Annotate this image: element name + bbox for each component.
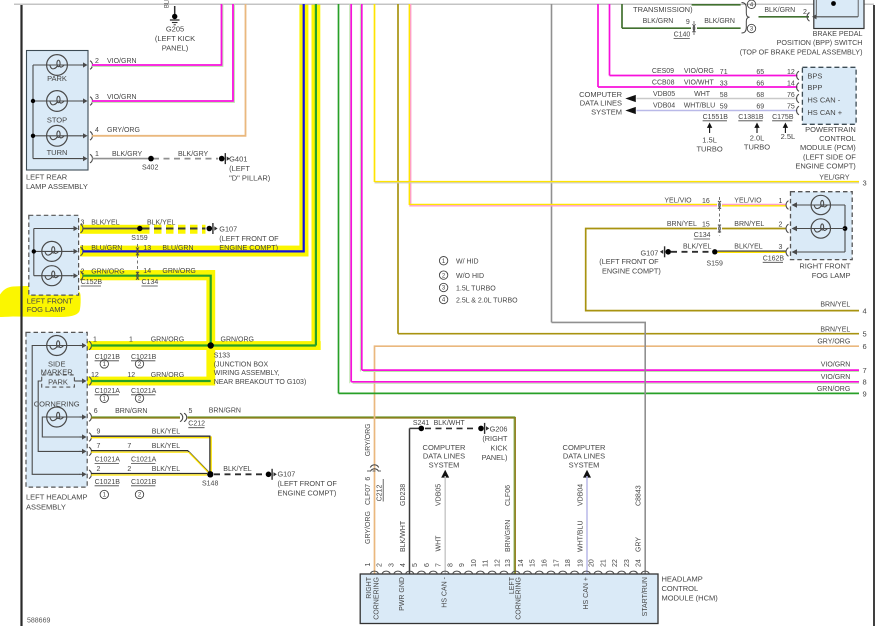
svg-text:16: 16 — [542, 559, 549, 567]
svg-text:LEFT REAR: LEFT REAR — [26, 173, 68, 182]
svg-text:CCB08: CCB08 — [652, 80, 675, 87]
svg-text:6: 6 — [94, 408, 98, 415]
svg-text:(LEFT SIDE OF: (LEFT SIDE OF — [803, 152, 856, 161]
svg-text:PANEL): PANEL) — [482, 453, 508, 462]
svg-text:7: 7 — [436, 563, 443, 567]
svg-text:BLK/YEL: BLK/YEL — [152, 466, 181, 473]
svg-text:1: 1 — [779, 198, 783, 205]
svg-text:10: 10 — [471, 559, 478, 567]
svg-text:BRAKE PEDAL: BRAKE PEDAL — [813, 29, 863, 38]
svg-text:8: 8 — [447, 563, 454, 567]
svg-text:START/RUN: START/RUN — [642, 577, 649, 616]
svg-text:C152B: C152B — [81, 279, 103, 286]
svg-text:GRY/ORG: GRY/ORG — [107, 127, 140, 134]
svg-text:17: 17 — [553, 559, 560, 567]
svg-text:TURN: TURN — [47, 148, 68, 157]
svg-text:24: 24 — [636, 559, 643, 567]
svg-text:2: 2 — [779, 221, 783, 228]
svg-text:C1021B: C1021B — [131, 479, 157, 486]
svg-text:COMPUTER: COMPUTER — [423, 443, 467, 452]
svg-text:"D" PILLAR): "D" PILLAR) — [229, 173, 271, 182]
svg-text:C134: C134 — [142, 279, 159, 286]
svg-text:66: 66 — [756, 80, 764, 87]
svg-text:GRY: GRY — [636, 537, 643, 552]
svg-text:15: 15 — [702, 221, 710, 228]
svg-text:BLK/GRY: BLK/GRY — [112, 151, 143, 158]
svg-text:(LEFT FRONT OF: (LEFT FRONT OF — [599, 257, 659, 266]
svg-text:2: 2 — [127, 466, 131, 473]
svg-text:6: 6 — [424, 563, 431, 567]
svg-text:(LEFT: (LEFT — [229, 164, 250, 173]
svg-text:4: 4 — [95, 127, 99, 134]
svg-text:GRN/ORG: GRN/ORG — [151, 372, 184, 379]
svg-text:FOG LAMP: FOG LAMP — [27, 305, 66, 314]
svg-text:HS CAN +: HS CAN + — [807, 108, 842, 117]
svg-text:W/ HID: W/ HID — [456, 259, 479, 266]
svg-text:G107: G107 — [641, 248, 659, 257]
svg-text:G205: G205 — [166, 25, 184, 34]
svg-text:RIGHT: RIGHT — [366, 576, 373, 599]
svg-text:S241: S241 — [413, 420, 429, 427]
svg-text:75: 75 — [787, 103, 795, 110]
svg-text:BPP: BPP — [807, 83, 822, 92]
svg-text:GRN/ORG: GRN/ORG — [91, 269, 124, 276]
svg-text:5: 5 — [863, 330, 867, 339]
svg-text:7: 7 — [97, 443, 101, 450]
svg-text:65: 65 — [756, 69, 764, 76]
svg-text:DATA LINES: DATA LINES — [423, 452, 465, 461]
svg-text:TURBO: TURBO — [744, 143, 770, 152]
svg-text:GRY/ORG: GRY/ORG — [817, 339, 850, 346]
svg-text:MODULE (PCM): MODULE (PCM) — [800, 143, 856, 152]
svg-text:BLK/WHT: BLK/WHT — [400, 520, 407, 552]
svg-text:YEL/VIO: YEL/VIO — [664, 198, 692, 205]
svg-text:23: 23 — [624, 559, 631, 567]
svg-text:CLF07: CLF07 — [365, 484, 372, 505]
svg-text:CES09: CES09 — [652, 68, 674, 75]
svg-text:BLK/YEL: BLK/YEL — [734, 244, 763, 251]
svg-text:HS CAN -: HS CAN - — [442, 576, 449, 607]
svg-text:RIGHT FRONT: RIGHT FRONT — [799, 262, 851, 271]
svg-text:BPS: BPS — [807, 71, 822, 80]
svg-text:C8843: C8843 — [636, 485, 643, 506]
svg-text:GRY/ORG: GRY/ORG — [365, 423, 372, 456]
svg-text:1: 1 — [95, 151, 99, 158]
svg-text:BLK/YEL: BLK/YEL — [683, 244, 712, 251]
svg-text:2.5L & 2.0L TURBO: 2.5L & 2.0L TURBO — [456, 297, 518, 304]
svg-text:3: 3 — [95, 94, 99, 101]
svg-text:14: 14 — [143, 268, 151, 275]
svg-text:VIO/WHT: VIO/WHT — [684, 80, 715, 87]
svg-text:MODULE (HCM): MODULE (HCM) — [662, 593, 719, 602]
svg-text:C1021A: C1021A — [95, 457, 121, 464]
svg-text:VDB05: VDB05 — [436, 484, 443, 506]
svg-text:BLK/GRY: BLK/GRY — [178, 151, 209, 158]
svg-text:3: 3 — [863, 178, 867, 187]
svg-text:YEL/VIO: YEL/VIO — [734, 198, 762, 205]
svg-text:C1021B: C1021B — [131, 354, 157, 361]
svg-text:C212: C212 — [376, 485, 383, 502]
svg-text:SYSTEM: SYSTEM — [569, 460, 600, 469]
svg-text:SYSTEM: SYSTEM — [429, 460, 460, 469]
svg-text:1: 1 — [365, 563, 372, 567]
svg-text:BLK/GRN: BLK/GRN — [643, 18, 674, 25]
svg-text:1: 1 — [81, 245, 85, 252]
svg-text:C212: C212 — [188, 421, 205, 428]
svg-text:BLK/YEL: BLK/YEL — [147, 220, 176, 227]
svg-text:13: 13 — [143, 245, 151, 252]
svg-text:7: 7 — [127, 443, 131, 450]
svg-text:59: 59 — [720, 103, 728, 110]
svg-text:CONTROL: CONTROL — [662, 584, 699, 593]
svg-text:LAMP ASSEMBLY: LAMP ASSEMBLY — [26, 182, 88, 191]
svg-text:STOP: STOP — [47, 115, 67, 124]
svg-text:(TOP OF BRAKE PEDAL ASSEMBLY): (TOP OF BRAKE PEDAL ASSEMBLY) — [740, 47, 863, 56]
svg-text:5: 5 — [189, 408, 193, 415]
svg-text:ENGINE COMPT): ENGINE COMPT) — [278, 488, 337, 497]
svg-text:POSITION (BPP) SWITCH: POSITION (BPP) SWITCH — [777, 38, 863, 47]
svg-text:C134: C134 — [694, 232, 711, 239]
svg-text:CONTROL: CONTROL — [819, 134, 856, 143]
svg-text:GRN/ORG: GRN/ORG — [817, 386, 850, 393]
svg-text:ENGINE COMPT): ENGINE COMPT) — [602, 266, 661, 275]
svg-text:NEAR BREAKOUT TO G103): NEAR BREAKOUT TO G103) — [214, 379, 307, 386]
svg-text:15: 15 — [530, 559, 537, 567]
svg-text:ENGINE COMPT): ENGINE COMPT) — [795, 162, 856, 171]
svg-text:W/O HID: W/O HID — [456, 273, 484, 280]
svg-text:9: 9 — [863, 389, 867, 398]
svg-text:6: 6 — [365, 477, 372, 481]
svg-text:BRN/GRN: BRN/GRN — [209, 407, 241, 414]
svg-text:DATA LINES: DATA LINES — [580, 99, 622, 108]
svg-text:3: 3 — [81, 220, 85, 227]
svg-text:22: 22 — [612, 559, 619, 567]
svg-text:1: 1 — [129, 336, 133, 343]
svg-text:19: 19 — [578, 559, 585, 567]
svg-text:S402: S402 — [142, 165, 158, 172]
svg-text:BLK/WHT: BLK/WHT — [434, 420, 466, 427]
svg-text:33: 33 — [720, 80, 728, 87]
svg-text:C1551B: C1551B — [703, 114, 729, 121]
svg-text:(LEFT KICK: (LEFT KICK — [155, 34, 195, 43]
svg-text:YEL/GRY: YEL/GRY — [819, 175, 850, 182]
svg-text:C1021A: C1021A — [131, 457, 157, 464]
svg-text:8: 8 — [863, 378, 867, 387]
svg-text:11: 11 — [483, 560, 490, 567]
svg-text:POWERTRAIN: POWERTRAIN — [805, 125, 856, 134]
svg-text:GD238: GD238 — [400, 484, 407, 506]
svg-text:2: 2 — [377, 563, 384, 567]
svg-text:GRN/ORG: GRN/ORG — [221, 336, 254, 343]
svg-text:VIO/GRN: VIO/GRN — [821, 362, 851, 369]
svg-text:G107: G107 — [278, 469, 296, 478]
svg-text:1.5L TURBO: 1.5L TURBO — [456, 285, 496, 292]
svg-text:BRN/YEL: BRN/YEL — [734, 221, 764, 228]
svg-text:G107: G107 — [219, 225, 237, 234]
svg-text:(LEFT FRONT OF: (LEFT FRONT OF — [278, 479, 338, 488]
svg-text:BLK/YEL: BLK/YEL — [223, 466, 252, 473]
svg-text:C175B: C175B — [772, 114, 794, 121]
svg-text:2.0L: 2.0L — [750, 134, 765, 143]
svg-text:VDB04: VDB04 — [653, 103, 675, 110]
svg-text:LEFT HEADLAMP: LEFT HEADLAMP — [26, 493, 88, 502]
svg-text:(JUNCTION BOX: (JUNCTION BOX — [214, 361, 269, 368]
svg-text:GRY/ORG: GRY/ORG — [365, 511, 372, 544]
svg-text:C1021B: C1021B — [95, 354, 121, 361]
svg-text:(RIGHT: (RIGHT — [482, 434, 508, 443]
svg-text:7: 7 — [863, 366, 867, 375]
svg-text:TURBO: TURBO — [696, 145, 722, 154]
svg-text:3: 3 — [779, 244, 783, 251]
svg-text:WHT: WHT — [694, 91, 711, 98]
svg-text:BRN/GRN: BRN/GRN — [115, 408, 147, 415]
svg-text:HEADLAMP: HEADLAMP — [662, 574, 703, 583]
svg-text:PWR GND: PWR GND — [399, 577, 406, 611]
svg-text:VIO/ORG: VIO/ORG — [684, 68, 714, 75]
svg-text:VIO/GRN: VIO/GRN — [107, 58, 137, 65]
svg-text:BLK/YEL: BLK/YEL — [91, 220, 120, 227]
svg-text:BRN/YEL: BRN/YEL — [667, 221, 697, 228]
svg-text:76: 76 — [787, 92, 795, 99]
svg-text:HS CAN +: HS CAN + — [583, 577, 590, 609]
svg-text:BLK/GRN: BLK/GRN — [764, 7, 795, 14]
svg-text:S133: S133 — [214, 353, 230, 360]
svg-text:14: 14 — [518, 559, 525, 567]
svg-text:PARK: PARK — [48, 377, 68, 386]
svg-text:GRN/ORG: GRN/ORG — [162, 268, 195, 275]
svg-text:5: 5 — [412, 563, 419, 567]
svg-text:CLF06: CLF06 — [505, 485, 512, 506]
svg-text:C1021A: C1021A — [95, 388, 121, 395]
svg-text:COMPUTER: COMPUTER — [563, 443, 607, 452]
svg-text:ASSEMBLY: ASSEMBLY — [26, 503, 66, 512]
svg-text:BLK/YEL: BLK/YEL — [152, 429, 181, 436]
svg-text:PARK: PARK — [47, 74, 67, 83]
svg-text:9: 9 — [97, 429, 101, 436]
svg-text:BRN/YEL: BRN/YEL — [820, 326, 850, 333]
svg-text:PANEL): PANEL) — [162, 44, 189, 53]
svg-text:18: 18 — [565, 559, 572, 567]
svg-text:12: 12 — [91, 372, 99, 379]
svg-text:2: 2 — [803, 9, 807, 16]
svg-text:C1021B: C1021B — [95, 479, 121, 486]
svg-text:3: 3 — [388, 563, 395, 567]
svg-text:1.5L: 1.5L — [702, 136, 717, 145]
svg-text:69: 69 — [756, 103, 764, 110]
svg-text:CORNERING: CORNERING — [373, 577, 380, 620]
svg-text:VIO/GRN: VIO/GRN — [821, 374, 851, 381]
svg-text:HS CAN -: HS CAN - — [807, 96, 840, 105]
svg-text:2.5L: 2.5L — [781, 132, 796, 141]
svg-text:20: 20 — [589, 559, 596, 567]
svg-text:S159: S159 — [131, 235, 147, 242]
svg-text:COMPUTER: COMPUTER — [579, 90, 623, 99]
svg-text:588669: 588669 — [27, 618, 50, 625]
svg-text:CORNERING: CORNERING — [515, 577, 522, 620]
svg-text:13: 13 — [505, 559, 512, 567]
svg-text:SYSTEM: SYSTEM — [591, 107, 622, 116]
svg-text:4: 4 — [400, 563, 407, 567]
svg-text:C1021A: C1021A — [131, 388, 157, 395]
svg-text:21: 21 — [600, 559, 607, 567]
svg-text:BLU/GRN: BLU/GRN — [162, 245, 193, 252]
svg-text:WHT/BLU: WHT/BLU — [684, 103, 716, 110]
svg-text:C162B: C162B — [763, 255, 785, 262]
svg-text:WHT/BLU: WHT/BLU — [578, 521, 585, 553]
svg-text:GRN/ORG: GRN/ORG — [151, 336, 184, 343]
svg-text:VDB05: VDB05 — [653, 91, 675, 98]
svg-text:58: 58 — [720, 92, 728, 99]
svg-text:4: 4 — [863, 307, 867, 316]
svg-text:2: 2 — [81, 269, 85, 276]
svg-text:C1381B: C1381B — [738, 114, 764, 121]
svg-text:BLK/GRN: BLK/GRN — [704, 18, 735, 25]
svg-text:2: 2 — [97, 466, 101, 473]
svg-text:WIRING ASSEMBLY,: WIRING ASSEMBLY, — [214, 370, 280, 377]
svg-text:C140: C140 — [674, 32, 691, 39]
svg-text:14: 14 — [787, 80, 795, 87]
svg-text:2: 2 — [95, 58, 99, 65]
svg-text:VIO/GRN: VIO/GRN — [107, 94, 137, 101]
svg-text:BLU/GRN: BLU/GRN — [91, 245, 122, 252]
svg-text:S159: S159 — [707, 261, 723, 268]
svg-text:KICK: KICK — [490, 443, 507, 452]
svg-text:6: 6 — [863, 342, 867, 351]
svg-text:12: 12 — [127, 372, 135, 379]
svg-text:DATA LINES: DATA LINES — [563, 452, 605, 461]
svg-text:9: 9 — [459, 563, 466, 567]
svg-text:FOG LAMP: FOG LAMP — [812, 271, 851, 280]
svg-text:BRN/GRN: BRN/GRN — [505, 520, 512, 552]
svg-text:G206: G206 — [490, 424, 508, 433]
svg-text:16: 16 — [702, 198, 710, 205]
svg-text:9: 9 — [686, 19, 690, 26]
svg-text:BLK/YEL: BLK/YEL — [152, 443, 181, 450]
svg-text:BLK: BLK — [165, 0, 171, 8]
svg-text:BRN/YEL: BRN/YEL — [820, 302, 850, 309]
svg-text:WHT: WHT — [436, 535, 443, 552]
svg-text:VDB04: VDB04 — [578, 484, 585, 506]
svg-text:G401: G401 — [229, 155, 247, 164]
svg-text:12: 12 — [787, 69, 795, 76]
svg-text:68: 68 — [756, 92, 764, 99]
svg-text:S148: S148 — [202, 481, 218, 488]
svg-text:TRANSMISSION): TRANSMISSION) — [633, 5, 693, 14]
svg-text:71: 71 — [720, 69, 728, 76]
svg-text:12: 12 — [494, 559, 501, 567]
svg-text:1: 1 — [93, 336, 97, 343]
